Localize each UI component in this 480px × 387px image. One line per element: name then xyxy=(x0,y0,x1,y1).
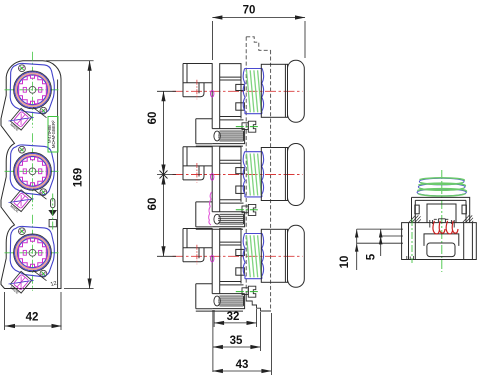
leg centerline xyxy=(411,219,413,263)
svg-text:12: 12 xyxy=(50,281,57,288)
station 2 front xyxy=(5,133,60,215)
dim 43 xyxy=(213,313,272,375)
switch unit 2 side xyxy=(173,144,305,230)
svg-text:43: 43 xyxy=(236,359,249,371)
switch unit 3 side xyxy=(173,225,305,311)
svg-text:32: 32 xyxy=(227,311,240,323)
plate inner right edge xyxy=(57,80,59,289)
dim 169 xyxy=(46,61,94,289)
svg-text:70: 70 xyxy=(243,5,256,17)
label box green xyxy=(47,117,58,153)
station 1 front xyxy=(5,52,60,134)
svg-text:60: 60 xyxy=(147,198,159,211)
hidden dashed step profile xyxy=(246,37,270,311)
svg-text:Nº470•8B: Nº470•8B xyxy=(47,125,52,143)
station 3 front xyxy=(5,215,60,297)
dim 32 xyxy=(214,309,256,327)
detail body lower xyxy=(402,223,477,260)
dim 10 xyxy=(355,229,403,270)
svg-text:169: 169 xyxy=(73,168,85,187)
slot detail xyxy=(49,199,56,227)
svg-text:35: 35 xyxy=(230,335,243,347)
revision cloud magenta xyxy=(209,192,212,225)
bottom step outline xyxy=(246,295,271,312)
dim 5 xyxy=(379,229,403,256)
contact springs red xyxy=(433,221,458,234)
shared dim point X xyxy=(160,171,168,179)
dim 60 lower xyxy=(157,175,176,257)
slot detail centerline xyxy=(52,194,54,231)
coil spring xyxy=(417,178,466,196)
svg-text:10: 10 xyxy=(339,256,351,269)
plate outline xyxy=(1,61,61,289)
svg-text:42: 42 xyxy=(26,312,39,324)
bottom tick marks xyxy=(407,256,414,260)
detail centerline xyxy=(441,170,443,272)
dim 35 xyxy=(213,310,261,372)
dim 42 xyxy=(5,292,62,330)
dim 60 upper xyxy=(157,91,176,174)
section hatch right xyxy=(463,215,473,222)
detail body upper xyxy=(412,197,470,222)
section hatch left xyxy=(409,215,421,222)
svg-text:5: 5 xyxy=(366,253,378,260)
terminal blocks xyxy=(430,219,454,228)
dim 70 xyxy=(212,18,305,61)
svg-text:60: 60 xyxy=(147,112,159,125)
switch unit 1 side xyxy=(173,60,305,146)
